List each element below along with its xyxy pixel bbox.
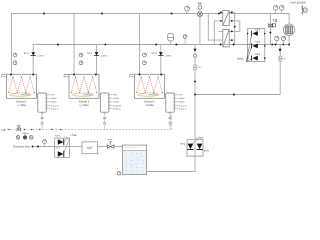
svg-text:Entlast: Entlast (113, 97, 120, 100)
svg-text:Masse: Masse (51, 101, 58, 104)
svg-text:B_hat_s: B_hat_s (113, 107, 120, 110)
signal bus dashed (4, 114, 171, 130)
heating coil boiler 2 (71, 77, 97, 93)
wire T40 bypass (269, 14, 271, 45)
svg-text:K4-2: K4-2 (55, 146, 60, 149)
svg-text:B_hat_s: B_hat_s (51, 107, 58, 110)
gauge P1 on supply bus (185, 6, 190, 13)
valve K3-2 (246, 41, 260, 62)
svg-text:PeH: PeH (113, 94, 117, 97)
tank drain sensor (117, 172, 120, 175)
sensor pair boiler 1 (13, 53, 17, 65)
boiler vessel Kessel 3 (130, 74, 165, 98)
svg-text:Entlast: Entlast (179, 97, 186, 100)
valve K4-1 (58, 139, 64, 145)
svg-text:PeH: PeH (51, 94, 55, 97)
valve at tank inlet (107, 139, 114, 148)
sensor on center drop (193, 54, 196, 57)
valve on right drop (278, 49, 281, 52)
SECTION:WIRES (12, 12, 290, 171)
svg-text:K0-2: K0-2 (204, 150, 210, 153)
pump P (283, 24, 294, 35)
svg-text:K1-3: K1-3 (152, 52, 158, 55)
wire Ruecklauf line (33, 146, 55, 148)
wire riser boiler2 top (73, 14, 75, 75)
wire lower cross header (195, 94, 280, 96)
svg-text:L.Taile: L.Taile (196, 136, 203, 139)
block T4.1 on center drop (194, 65, 203, 70)
valve K1-1 (24, 52, 44, 58)
wire K0 to tank return (147, 156, 195, 171)
heating coil boiler 1 (9, 77, 35, 93)
svg-text:K3-1: K3-1 (255, 28, 261, 31)
motor valve M on supply bus (197, 2, 202, 16)
controller block boiler 1 (37, 93, 59, 130)
svg-text:Entlast: Entlast (51, 97, 58, 100)
svg-text:K4-1: K4-1 (55, 135, 61, 138)
block T4x on right drop (279, 56, 287, 61)
return sensors (275, 36, 286, 44)
expansion vessel (168, 33, 174, 44)
wire valve K2-1 riser (96, 45, 98, 53)
svg-text:._Oete: ._Oete (164, 55, 172, 58)
sensor pair boiler 3 (143, 53, 147, 65)
svg-text:._Oete: ._Oete (99, 55, 107, 58)
wire valve K1-3 riser (160, 45, 162, 53)
svg-text:Kessel 3: Kessel 3 (144, 100, 155, 103)
valve block K0 (180, 136, 209, 156)
heating coil boiler 3 (137, 77, 163, 93)
svg-text:K2-1: K2-1 (87, 52, 93, 55)
svg-text:s_2MBa: s_2MBa (79, 104, 89, 107)
wire valve K1-1 drop (32, 56, 34, 75)
valve T40 bypass (269, 20, 277, 28)
valve manifold KVMx box (248, 29, 265, 62)
boiler vessel Kessel 1 (2, 74, 37, 98)
wire HX2 left stub (219, 30, 223, 32)
svg-text:Masse: Masse (179, 101, 186, 104)
svg-text:K0-1: K0-1 (180, 143, 186, 146)
valve K3-1 (246, 28, 260, 62)
svg-text:K3-3: K3-3 (255, 53, 261, 56)
svg-text:KVMx: KVMx (237, 58, 244, 61)
sensor on return bus (183, 35, 187, 45)
svg-text:L.Taile: L.Taile (70, 134, 77, 137)
valve K3-3 (246, 53, 260, 62)
signal bus taps (9, 129, 62, 131)
wire HX feed left A (208, 14, 223, 41)
small valve on signal bus (17, 125, 21, 131)
controller block boiler 2 (99, 93, 121, 130)
wire center distribution drop (194, 45, 196, 140)
wire X97 to tank valve (98, 146, 107, 148)
sensor on Ruecklauf line (43, 140, 47, 147)
boiler vessel Kessel 2 (64, 74, 99, 98)
svg-text:Kessel 1: Kessel 1 (16, 100, 27, 103)
wire tank valve to tank (114, 146, 122, 148)
svg-text:K1-1: K1-1 (24, 52, 30, 55)
wire HX feed left B (214, 21, 223, 45)
svg-text:B_planet: B_planet (179, 104, 187, 107)
supply sensors TF1 TF2 (273, 5, 284, 13)
svg-text:Kessel 2: Kessel 2 (79, 100, 90, 103)
valve K1-3 (152, 52, 172, 58)
wire K4 to X97 (69, 146, 82, 148)
svg-text:X97: X97 (87, 146, 93, 150)
svg-text:s_2MBa: s_2MBa (17, 104, 27, 107)
junction dots top bus (10, 13, 290, 148)
wire valve K2-1 drop (96, 56, 98, 75)
operator circles (16, 132, 33, 139)
heat exchanger HX2 (223, 29, 229, 47)
svg-text:K3-2: K3-2 (255, 41, 261, 44)
svg-text:B_planet: B_planet (113, 104, 121, 107)
wire valve K1-3 drop (160, 56, 162, 75)
svg-text:B_hat_s: B_hat_s (179, 107, 186, 110)
storage tank (123, 145, 147, 174)
wire HX series link (235, 21, 240, 32)
water lens boiler 1 (10, 93, 31, 96)
svg-text:B_planet: B_planet (51, 104, 59, 107)
wire top supply bus (12, 14, 290, 75)
heat exchanger HX1 (223, 11, 229, 26)
valve on center drop (193, 49, 196, 52)
svg-text:Ruecklauf Sole: Ruecklauf Sole (13, 146, 30, 149)
wire mixing valve drop (199, 17, 201, 45)
HX port dots (220, 11, 236, 41)
svg-text:Masse: Masse (113, 101, 120, 104)
wire right drop to header (279, 45, 281, 95)
valve K4-2 (58, 151, 64, 157)
valve K0-1 (187, 144, 193, 150)
wire riser boiler3 top (139, 14, 141, 75)
water lens boiler 2 (73, 93, 94, 96)
wire HX right stubs (229, 11, 235, 13)
sensor pair boiler 2 (79, 53, 83, 65)
results icon (301, 5, 307, 14)
valve K0-2 (196, 144, 202, 150)
svg-text:7.63: 7.63 (1, 129, 6, 132)
svg-text:T4.1: T4.1 (197, 66, 202, 69)
valve K2-1 (87, 52, 107, 58)
block X97 (82, 142, 98, 154)
controller block boiler 3 (165, 93, 187, 130)
svg-text:7 HsP 80/2000: 7 HsP 80/2000 (289, 1, 307, 4)
svg-text:PeH: PeH (179, 94, 183, 97)
wire HX right rail (234, 12, 236, 44)
valve block K4 (55, 134, 78, 157)
svg-text:._Oete: ._Oete (36, 55, 44, 58)
wire return bus (33, 36, 289, 52)
water lens boiler 3 (138, 93, 159, 96)
svg-text:2.5MBa: 2.5MBa (145, 104, 154, 107)
